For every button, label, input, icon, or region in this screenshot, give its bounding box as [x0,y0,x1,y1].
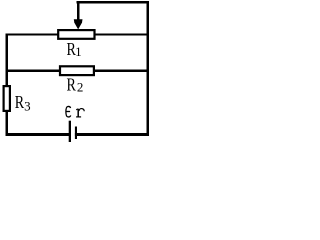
battery short plate [75,127,77,140]
wire bottom [5,133,149,136]
resistor R1 [58,30,94,39]
svg-text:3: 3 [24,98,31,113]
wire R1 row [5,33,149,35]
wire right edge [147,1,150,136]
label r (internal resistance) [76,109,84,117]
wire R2 row [5,70,149,73]
wiper arrow [74,19,83,29]
svg-text:R: R [15,94,25,113]
wire top (wiper to top-right corner) [77,1,150,4]
resistor R2 [60,66,94,75]
wire left edge [5,33,7,136]
label epsilon (emf) [66,106,71,116]
battery long plate [69,121,71,142]
wire wiper vertical [77,1,80,20]
svg-text:2: 2 [77,80,84,95]
battery gap mask [71,133,75,137]
svg-text:R: R [67,76,77,95]
svg-text:1: 1 [75,44,82,59]
resistor R3 [4,86,10,111]
